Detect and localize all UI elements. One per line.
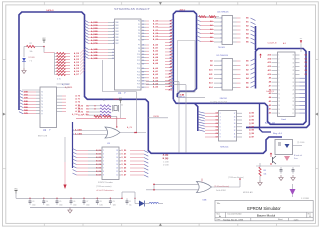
svg-text:U4 74HC05: U4 74HC05 [217, 11, 229, 13]
svg-text:D0: D0 [305, 55, 307, 57]
svg-text:T6: T6 [41, 110, 43, 112]
svg-text:Q_B1: Q_B1 [249, 116, 254, 118]
svg-text:D2 LED: D2 LED [29, 57, 36, 59]
svg-text:27: 27 [142, 39, 144, 41]
svg-text:U5 74HC05: U5 74HC05 [217, 55, 229, 57]
svg-text:(T1 M new version): (T1 M new version) [96, 186, 112, 188]
svg-text:B2: B2 [246, 26, 248, 28]
svg-text:9C8/9C Decoder: 9C8/9C Decoder [98, 182, 113, 184]
svg-text:41: 41 [142, 87, 144, 89]
svg-text:A_A6: A_A6 [153, 86, 159, 89]
svg-text:A15: A15 [268, 54, 271, 57]
svg-text:D1: D1 [305, 58, 307, 60]
svg-text:/~0: /~0 [30, 60, 32, 62]
svg-text:P0: P0 [138, 21, 140, 23]
svg-text:P18: P18 [137, 81, 140, 83]
svg-text:Da.H.4/OBJ: Da.H.4/OBJ [216, 190, 226, 192]
svg-text:22: 22 [142, 24, 144, 26]
svg-text:O0: O0 [215, 113, 218, 115]
svg-text:C6: C6 [73, 201, 75, 203]
svg-text:A9: A9 [210, 64, 212, 67]
svg-text:A10: A10 [209, 68, 212, 71]
svg-text:B3: B3 [246, 30, 248, 32]
svg-text:A_A3: A_A3 [153, 29, 159, 32]
svg-text:A12: A12 [209, 77, 212, 80]
svg-text:P10: P10 [137, 54, 140, 56]
svg-text:Cond7_8: Cond7_8 [268, 42, 278, 44]
svg-text:A.8: A.8 [283, 42, 286, 45]
svg-text:A6: A6 [269, 88, 271, 91]
svg-text:T2: T2 [41, 98, 43, 100]
svg-text:A2: A2 [269, 104, 271, 107]
svg-text:A_D0B: A_D0B [91, 21, 98, 24]
svg-text:B0: B0 [246, 18, 248, 20]
svg-text:A10: A10 [169, 73, 172, 76]
svg-text:C3: C3 [32, 201, 34, 203]
svg-text:A_A1: A_A1 [153, 47, 159, 50]
svg-text:A_A5: A_A5 [153, 83, 159, 86]
svg-text:B_D2: B_D2 [96, 157, 101, 159]
svg-text:33: 33 [142, 60, 144, 62]
svg-text:A_A4: A_A4 [153, 32, 159, 35]
svg-text:16: 16 [116, 157, 118, 159]
svg-text:(T1 M new Version): (T1 M new Version) [228, 177, 244, 179]
svg-text:D3B: D3B [24, 101, 28, 103]
svg-text:23: 23 [292, 90, 294, 92]
svg-text:A_A3: A_A3 [153, 76, 159, 79]
svg-text:A_A5: A_A5 [153, 59, 159, 62]
svg-text:P11: P11 [137, 57, 140, 59]
svg-text:A_A0: A_A0 [153, 44, 159, 47]
svg-text:11: 11 [112, 55, 114, 57]
svg-text:15: 15 [116, 161, 118, 163]
svg-text:A_0B: A_0B [83, 113, 88, 116]
svg-text:C1: C1 [129, 201, 131, 203]
svg-text:A2: A2 [170, 26, 172, 29]
svg-text:A9: A9 [269, 77, 271, 80]
svg-text:26: 26 [292, 78, 294, 80]
svg-text:4: 4 [113, 31, 114, 33]
svg-text:B_D7: B_D7 [96, 175, 101, 177]
svg-text:10k: 10k [30, 51, 33, 53]
svg-text:A1: A1 [170, 44, 172, 47]
svg-text:A0B.0: A0B.0 [180, 8, 187, 11]
svg-text:100n: 100n [100, 205, 104, 207]
svg-text:1 of 1: 1 of 1 [293, 219, 299, 221]
svg-text:B1: B1 [246, 22, 248, 24]
svg-text:A3: A3 [269, 100, 271, 103]
svg-text:D5B: D5B [24, 107, 28, 109]
svg-text:32: 32 [292, 55, 294, 57]
svg-text:P14: P14 [137, 68, 140, 70]
svg-text:A_A2: A_A2 [153, 26, 159, 29]
svg-text:A_A6: A_A6 [153, 62, 159, 65]
svg-text:Q_B0: Q_B0 [249, 113, 254, 115]
svg-text:A_D7: A_D7 [74, 73, 80, 76]
svg-text:A_15B: A_15B [72, 113, 78, 116]
svg-text:A_13B2: A_13B2 [75, 133, 82, 136]
svg-text:B_D5: B_D5 [96, 168, 101, 170]
svg-text:74HC541: 74HC541 [220, 98, 228, 100]
svg-text:17: 17 [292, 113, 294, 115]
svg-text:100n: 100n [73, 205, 77, 207]
svg-text:3: 3 [113, 28, 114, 30]
svg-text:10: 10 [279, 90, 281, 92]
svg-text:Q_B5: Q_B5 [249, 130, 254, 132]
svg-text:32: 32 [142, 57, 144, 59]
svg-text:B1: B1 [246, 65, 248, 67]
svg-text:28: 28 [292, 70, 294, 72]
svg-text:A6: A6 [170, 60, 172, 63]
svg-text:D 1.5B: D 1.5B [163, 165, 169, 167]
svg-text:O5: O5 [215, 130, 218, 132]
svg-text:A_T2: A_T2 [75, 101, 80, 104]
svg-text:vcc: vcc [300, 38, 303, 40]
svg-text:26: 26 [142, 36, 144, 38]
svg-text:A_D1B: A_D1B [91, 24, 98, 27]
svg-text:C 1.5B: C 1.5B [163, 161, 169, 163]
svg-text:PA0: PA0 [116, 21, 119, 24]
svg-text:A_D6: A_D6 [74, 70, 80, 73]
svg-text:A10: A10 [268, 73, 271, 76]
svg-text:C8: C8 [100, 201, 102, 203]
svg-text:10k: 10k [264, 173, 267, 175]
svg-text:A8: A8 [170, 66, 172, 69]
svg-text:B5: B5 [246, 83, 248, 85]
svg-text:P6: P6 [138, 39, 140, 41]
svg-text:74HC541: 74HC541 [220, 146, 229, 148]
svg-text:Bauen Modul: Bauen Modul [257, 214, 276, 218]
svg-text:17: 17 [116, 154, 118, 156]
svg-text:A13: A13 [209, 82, 212, 85]
svg-text:A7: A7 [269, 84, 271, 87]
svg-text:A_S0B: A_S0B [91, 48, 98, 51]
svg-text:A_D2: A_D2 [74, 58, 80, 61]
svg-text:A_X1: A_X1 [78, 107, 83, 110]
svg-text:A0: A0 [170, 20, 172, 23]
svg-text:25: 25 [142, 33, 144, 35]
svg-text:A_S3B: A_S3B [91, 57, 98, 60]
svg-text:A_A1: A_A1 [153, 23, 159, 26]
svg-text:A_A4: A_A4 [153, 79, 159, 82]
svg-text:31: 31 [292, 59, 294, 61]
svg-text:R8: R8 [264, 170, 266, 172]
svg-text:O_D0: O_D0 [121, 150, 126, 152]
svg-text:A_S1B: A_S1B [91, 51, 98, 54]
svg-text:O_D1: O_D1 [121, 154, 126, 156]
svg-text:U6B: U6B [203, 199, 208, 201]
svg-text:A6: A6 [170, 38, 172, 41]
svg-text:100n: 100n [86, 205, 90, 207]
svg-text:A2: A2 [210, 24, 212, 27]
svg-text:T4: T4 [41, 104, 43, 106]
svg-text:DATA.B: DATA.B [46, 9, 54, 12]
svg-text:1: 1 [113, 22, 114, 24]
svg-text:R9: R9 [103, 100, 105, 102]
svg-text:16: 16 [234, 116, 236, 118]
svg-text:A7: A7 [170, 63, 172, 66]
svg-text:O_D7: O_D7 [121, 175, 126, 177]
svg-text:18: 18 [116, 150, 118, 152]
svg-text:100n: 100n [113, 205, 117, 207]
svg-text:A_D4B: A_D4B [91, 33, 98, 36]
svg-text:A_D7B: A_D7B [91, 42, 98, 45]
svg-text:A_A2: A_A2 [153, 50, 159, 53]
svg-text:A_D0: A_D0 [74, 52, 80, 55]
svg-text:A5: A5 [269, 92, 271, 95]
svg-text:P8: P8 [138, 48, 140, 50]
svg-text:D7B: D7B [24, 113, 28, 115]
svg-text:37: 37 [142, 74, 144, 76]
svg-text:24: 24 [142, 30, 144, 32]
svg-text:B0: B0 [86, 105, 88, 107]
svg-text:A_QQ: A_QQ [163, 153, 169, 156]
svg-text:A_A0: A_A0 [153, 67, 159, 70]
svg-text:A_15B1: A_15B1 [75, 129, 82, 132]
svg-text:Q_B6: Q_B6 [249, 133, 254, 135]
svg-text:EPROM Simulator: EPROM Simulator [247, 206, 281, 211]
svg-text:A_A2: A_A2 [153, 73, 159, 76]
svg-text:A_D4: A_D4 [74, 64, 80, 67]
svg-text:9: 9 [113, 49, 114, 51]
svg-text:T5: T5 [41, 107, 43, 109]
svg-text:14: 14 [234, 123, 236, 125]
svg-text:14: 14 [116, 164, 118, 166]
svg-text:6: 6 [113, 37, 114, 39]
svg-text:D2B: D2B [24, 98, 28, 100]
svg-text:18: 18 [292, 109, 294, 111]
svg-text:P2: P2 [138, 27, 140, 29]
svg-text:PA1: PA1 [116, 24, 119, 27]
svg-text:12: 12 [112, 58, 114, 60]
svg-text:10: 10 [234, 137, 236, 139]
svg-text:Q_B2: Q_B2 [249, 120, 254, 122]
svg-text:PA3: PA3 [116, 30, 119, 33]
svg-text:8: 8 [113, 43, 114, 45]
svg-text:A_A1: A_A1 [153, 70, 159, 73]
svg-text:P4: P4 [138, 33, 140, 35]
svg-text:A_A3: A_A3 [153, 53, 159, 56]
svg-text:MODUL A/3: MODUL A/3 [243, 191, 253, 194]
svg-text:A_TXD1: A_TXD1 [62, 83, 69, 86]
svg-text:4k: 4k [121, 104, 123, 106]
svg-text:15: 15 [279, 109, 281, 111]
svg-text:A_D6B: A_D6B [91, 39, 98, 42]
svg-text:O_D5: O_D5 [121, 168, 126, 170]
svg-text:35: 35 [142, 68, 144, 70]
svg-text:11: 11 [279, 93, 281, 95]
svg-text:7: 7 [113, 40, 114, 42]
svg-text:D6B: D6B [24, 110, 28, 112]
svg-text:P16: P16 [137, 74, 140, 76]
svg-text:A5: A5 [210, 36, 212, 39]
svg-text:100n: 100n [46, 205, 50, 207]
svg-text:12: 12 [116, 171, 118, 173]
svg-text:10u: 10u [129, 204, 132, 206]
svg-text:A_A4: A_A4 [153, 56, 159, 59]
svg-text:20: 20 [292, 101, 294, 103]
svg-text:R2: R2 [30, 43, 32, 45]
svg-text:CS/OE: CS/OE [153, 116, 160, 118]
svg-text:O_D3: O_D3 [121, 161, 126, 163]
svg-text:Reg.+5.0: Reg.+5.0 [273, 133, 283, 135]
svg-text:A_D3B: A_D3B [91, 30, 98, 33]
svg-text:P1: P1 [138, 24, 140, 26]
svg-text:B_D3: B_D3 [96, 161, 101, 163]
svg-text:100n: 100n [59, 205, 63, 207]
svg-text:B2: B2 [246, 69, 248, 71]
svg-text:A11: A11 [169, 76, 172, 79]
svg-text:A11: A11 [209, 73, 212, 76]
svg-text:B6: B6 [246, 87, 248, 89]
svg-text:O_D6: O_D6 [121, 171, 126, 173]
svg-text:OUTPUT PORT: OUTPUT PORT [210, 102, 228, 105]
svg-text:O2: O2 [215, 120, 218, 122]
svg-text:C7: C7 [86, 201, 88, 203]
svg-text:16: 16 [279, 113, 281, 115]
svg-text:P12: P12 [137, 60, 140, 62]
svg-text:23: 23 [142, 27, 144, 29]
svg-text:A_A6: A_A6 [153, 38, 159, 41]
svg-text:PA4: PA4 [116, 33, 119, 36]
svg-text:PA2: PA2 [116, 27, 119, 30]
svg-text:36: 36 [142, 71, 144, 73]
svg-text:39: 39 [142, 81, 144, 83]
svg-text:A_CS: A_CS [127, 126, 133, 129]
svg-text:C4: C4 [46, 201, 48, 203]
svg-text:15: 15 [234, 120, 236, 122]
svg-text:A6: A6 [210, 40, 212, 43]
svg-text:A_X0: A_X0 [78, 104, 83, 107]
svg-text:19: 19 [292, 105, 294, 107]
svg-text:D4B: D4B [24, 103, 28, 106]
svg-text:12: 12 [234, 130, 236, 132]
svg-text:21: 21 [292, 97, 294, 99]
svg-text:8/8J~0 2/8: 8/8J~0 2/8 [38, 136, 47, 138]
svg-text:A_D2B: A_D2B [91, 27, 98, 30]
svg-text:40: 40 [142, 84, 144, 86]
svg-text:28: 28 [142, 45, 144, 47]
svg-text:A5: A5 [170, 57, 172, 60]
svg-text:A12: A12 [268, 65, 271, 68]
svg-text:29: 29 [142, 48, 144, 50]
svg-text:A_A0: A_A0 [153, 20, 159, 23]
svg-text:100n: 100n [32, 205, 36, 207]
svg-text:29: 29 [292, 66, 294, 68]
svg-text:21: 21 [142, 21, 144, 23]
svg-text:O6: O6 [215, 133, 218, 135]
svg-text:A0: A0 [269, 112, 271, 115]
svg-text:A_A5: A_A5 [153, 35, 159, 38]
svg-text:P9: P9 [138, 51, 140, 53]
svg-text:Cond: Cond [281, 119, 286, 121]
svg-text:B3: B3 [246, 74, 248, 76]
svg-text:A1: A1 [170, 23, 172, 26]
svg-text:A9: A9 [170, 69, 172, 72]
svg-text:A5: A5 [170, 35, 172, 38]
svg-text:A_D5B: A_D5B [91, 36, 98, 39]
svg-text:B6: B6 [246, 42, 248, 44]
svg-text:A_D1: A_D1 [74, 55, 80, 58]
svg-text:C9: C9 [113, 201, 115, 203]
svg-text:1.1: 1.1 [309, 216, 312, 218]
svg-text:Sheet: Sheet [278, 218, 283, 221]
svg-text:D2: D2 [305, 62, 307, 64]
svg-text:T7: T7 [41, 113, 43, 115]
svg-text:Q_B7: Q_B7 [249, 137, 254, 139]
svg-text:Q_B3: Q_B3 [249, 123, 254, 125]
svg-text:13: 13 [279, 101, 281, 103]
svg-text:A3: A3 [170, 50, 172, 53]
svg-text:A_T1: A_T1 [75, 98, 80, 101]
svg-text:D1B: D1B [24, 95, 28, 97]
svg-text:22: 22 [292, 93, 294, 95]
svg-text:A_S2B: A_S2B [91, 54, 98, 57]
svg-text:11: 11 [234, 133, 236, 135]
svg-text:ST62/65L65 INSECT: ST62/65L65 INSECT [114, 7, 151, 11]
svg-text:A13: A13 [268, 61, 271, 64]
svg-text:25: 25 [292, 82, 294, 84]
svg-text:5: 5 [113, 34, 114, 36]
svg-text:4 7k: 4 7k [57, 79, 61, 81]
svg-text:Sunday, Nov 01, 1998: Sunday, Nov 01, 1998 [223, 219, 244, 221]
svg-text:14: 14 [279, 105, 281, 107]
svg-text:A_D5: A_D5 [74, 67, 80, 70]
svg-text:B_QQ: B_QQ [163, 158, 169, 160]
svg-text:A2: A2 [170, 47, 172, 50]
svg-text:P7: P7 [138, 45, 140, 47]
svg-text:T3: T3 [41, 101, 43, 103]
svg-text:B load o/h: B load o/h [294, 155, 302, 157]
svg-text:C5: C5 [59, 201, 61, 203]
svg-text:13: 13 [116, 168, 118, 170]
svg-text:17: 17 [234, 113, 236, 115]
svg-text:P19: P19 [137, 84, 140, 86]
svg-text:A_RXD1: A_RXD1 [65, 86, 72, 89]
svg-text:T1: T1 [41, 95, 43, 97]
svg-text:A_T0: A_T0 [75, 95, 80, 98]
svg-text:D0B: D0B [24, 92, 28, 94]
svg-text:1.1.1998: 1.1.1998 [301, 198, 310, 200]
svg-text:30: 30 [142, 51, 144, 53]
svg-text:A15: A15 [169, 88, 172, 91]
svg-text:<0.1=0.2 Redirection>: <0.1=0.2 Redirection> [96, 189, 114, 192]
svg-text:O1: O1 [215, 116, 218, 118]
svg-text:38: 38 [142, 78, 144, 80]
svg-text:P5: P5 [138, 36, 140, 38]
svg-text:12: 12 [279, 97, 281, 99]
svg-text:30: 30 [292, 62, 294, 64]
svg-text:27: 27 [292, 74, 294, 76]
svg-text:24: 24 [292, 86, 294, 88]
svg-text:A3: A3 [170, 29, 172, 32]
svg-text:A0: A0 [170, 41, 172, 44]
svg-text:2: 2 [113, 25, 114, 27]
svg-text:PA5: PA5 [116, 36, 119, 39]
svg-text:B_D6: B_D6 [96, 171, 101, 173]
svg-text:A11: A11 [268, 69, 271, 72]
svg-text:11: 11 [116, 175, 118, 177]
svg-text:74HC04: 74HC04 [179, 97, 185, 99]
svg-text:P13: P13 [137, 63, 140, 65]
svg-text:Document Number: Document Number [228, 212, 243, 215]
svg-text:B_D0: B_D0 [96, 150, 101, 152]
svg-text:31: 31 [142, 54, 144, 56]
svg-text:B0: B0 [246, 61, 248, 63]
svg-text:B5: B5 [246, 38, 248, 40]
svg-text:34: 34 [142, 63, 144, 65]
svg-text:A1: A1 [269, 108, 271, 111]
